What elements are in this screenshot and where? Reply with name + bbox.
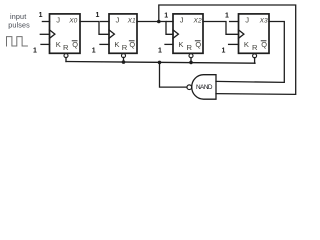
wire: K stub X0 — [41, 43, 50, 45]
svg-text:R: R — [252, 43, 258, 52]
wire: NAND output to reset rail — [160, 62, 187, 87]
svg-text:R: R — [122, 43, 128, 52]
svg-text:Q: Q — [72, 40, 78, 49]
svg-text:X1: X1 — [127, 17, 136, 24]
junction: X2 R on reset rail — [189, 61, 193, 65]
svg-text:pulses: pulses — [8, 20, 30, 29]
svg-text:Q: Q — [261, 40, 267, 49]
svg-text:J: J — [245, 16, 249, 25]
svg-text:1: 1 — [96, 12, 100, 19]
svg-text:1: 1 — [221, 47, 225, 54]
wire: Q of X2 to clock of X3 — [203, 22, 239, 35]
wire: reset rail — [66, 62, 255, 64]
svg-text:J: J — [180, 16, 184, 25]
svg-text:1: 1 — [225, 12, 229, 19]
svg-text:1: 1 — [92, 47, 96, 54]
wire: Q of X3 down right side to NAND top input — [216, 22, 284, 83]
wire: Q of X0 to clock of X1 — [80, 22, 109, 35]
flip-flop X2 — [173, 14, 203, 64]
svg-text:Q: Q — [195, 40, 201, 49]
svg-text:R: R — [63, 43, 69, 52]
wire: J stub X1 — [101, 21, 110, 23]
svg-text:1: 1 — [164, 13, 168, 20]
flip-flop X3 — [239, 14, 270, 63]
svg-text:1: 1 — [33, 47, 37, 54]
svg-text:K: K — [244, 40, 249, 49]
wire: Q of X1 to clock of X2 — [137, 22, 173, 35]
wire: K stub X1 — [100, 43, 109, 45]
flip-flop X1 — [109, 14, 137, 64]
flip-flop X0 — [50, 14, 81, 62]
svg-text:X0: X0 — [68, 17, 77, 24]
clock source waveform — [7, 37, 28, 46]
svg-text:J: J — [116, 16, 120, 25]
svg-text:K: K — [56, 40, 61, 49]
wire: J stub X0 — [42, 21, 49, 23]
label: input pulses — [8, 12, 30, 30]
junction: X1 Q tap for NAND feedback — [157, 20, 161, 24]
svg-text:Q: Q — [129, 40, 135, 49]
wire: K stub X2 — [165, 43, 173, 45]
junction: NAND output on reset rail — [158, 61, 162, 65]
wire: X1 Q up to top rail, right side, down to NAND input — [159, 5, 296, 94]
svg-text:X3: X3 — [259, 17, 268, 24]
junction: X1 R on reset rail — [122, 60, 126, 64]
svg-text:J: J — [56, 16, 60, 25]
wire: J stub X3 — [230, 21, 239, 23]
svg-text:1: 1 — [158, 47, 162, 54]
svg-text:NAND: NAND — [196, 84, 213, 91]
svg-text:K: K — [178, 40, 183, 49]
gate NAND (pointing left) — [187, 75, 216, 100]
svg-text:R: R — [187, 43, 193, 52]
wire: K stub X3 — [229, 43, 239, 45]
svg-text:1: 1 — [39, 12, 43, 19]
wire: clock input to X0 — [40, 33, 49, 35]
svg-text:K: K — [114, 40, 119, 49]
wire: J stub X2 — [166, 21, 173, 23]
svg-text:X2: X2 — [193, 17, 202, 24]
